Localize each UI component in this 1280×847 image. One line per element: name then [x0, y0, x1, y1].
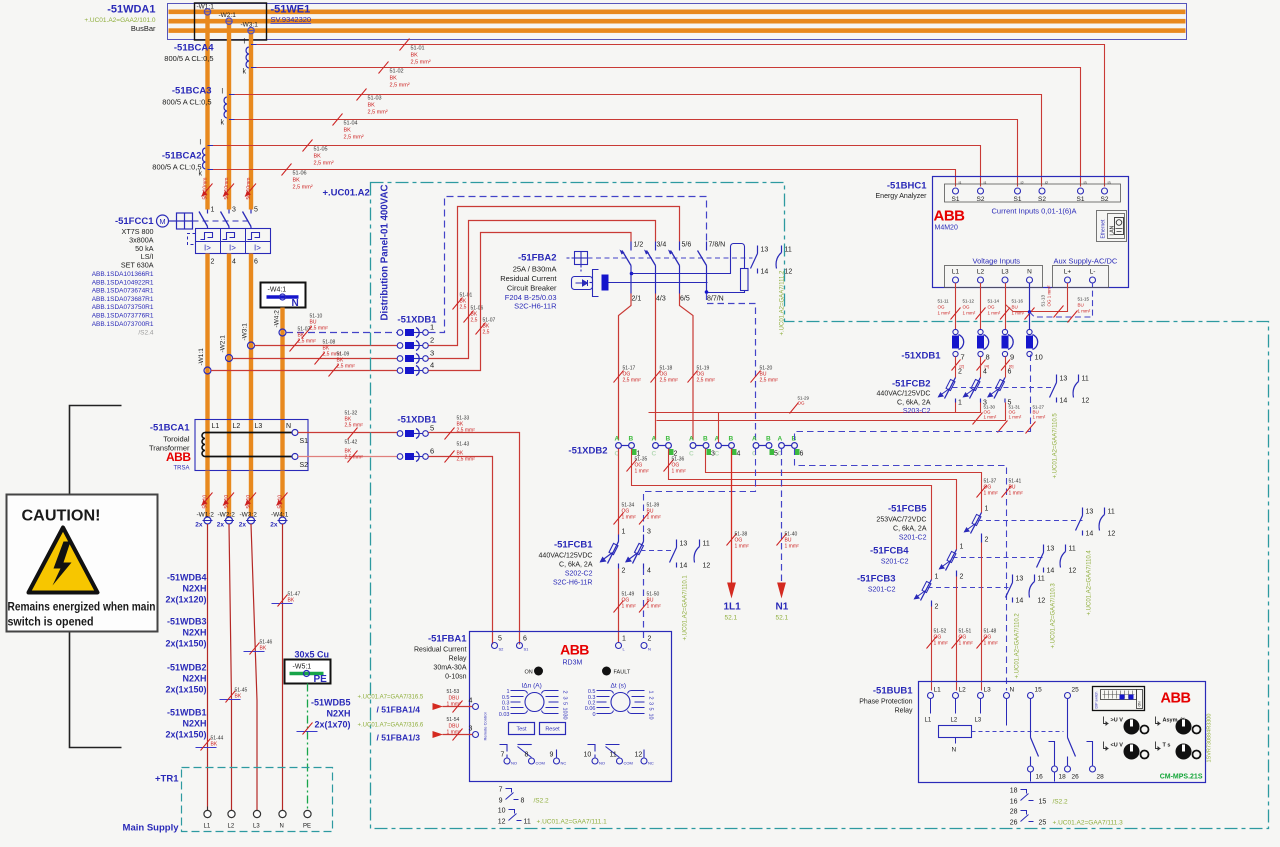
svg-text:2: 2: [958, 369, 962, 376]
aux contact FCB5 13-14: [1076, 508, 1094, 538]
svg-text:14: 14: [1047, 568, 1055, 575]
wire 51-27 neutral dashed XDB1-10 to XDB2-6B: [795, 355, 1046, 443]
svg-text:I2: I2: [1045, 181, 1048, 185]
breaker -51FCB3 pole: [914, 573, 939, 611]
svg-text:S201-C2: S201-C2: [899, 535, 927, 542]
cable label -51WDB4: [165, 573, 206, 605]
svg-text:12: 12: [498, 819, 506, 826]
BUB1 order number vertical: [1207, 714, 1213, 763]
svg-text:-51FCB1: -51FCB1: [554, 540, 593, 551]
toroidal transformer -51BCA1 body: [195, 420, 308, 471]
caution warning triangle: [29, 528, 98, 593]
CT -51BCA4: [164, 39, 256, 76]
svg-text:S202-C2: S202-C2: [565, 571, 593, 578]
svg-text:BK: BK: [314, 154, 322, 160]
svg-text:CM-MPS.21S: CM-MPS.21S: [1160, 774, 1203, 781]
svg-text:18: 18: [1059, 774, 1067, 781]
svg-text:7: 7: [501, 752, 505, 759]
orange stubs below transformer: [205, 471, 284, 517]
svg-text:Relay: Relay: [895, 708, 913, 715]
cable -51WDB4 feeder N: [272, 524, 301, 811]
svg-text:Remote Control: Remote Control: [483, 712, 488, 740]
svg-text:BK: BK: [293, 178, 301, 184]
svg-text:Main Supply: Main Supply: [123, 823, 180, 834]
breaker -51FCB2 linkage dashed: [953, 387, 1053, 389]
svg-text:I>: I>: [254, 244, 261, 253]
phase relay -51BUB1 body: [919, 682, 1206, 783]
svg-text:1 mm²: 1 mm²: [938, 311, 951, 316]
svg-text:TRSA: TRSA: [173, 466, 189, 472]
rccb -51FBA2 pole 1-2: [620, 242, 644, 303]
tap -W2:1 on L2: [219, 12, 237, 24]
orange riser W3 from busbar: [249, 31, 253, 210]
interruption arrow 51FBA1/4: [358, 689, 473, 715]
svg-text:1 mm²: 1 mm²: [635, 469, 650, 475]
RD3M dial IDn: [499, 683, 568, 720]
svg-text:9: 9: [1010, 353, 1014, 362]
svg-text:8: 8: [525, 752, 529, 759]
svg-text:BusBar: BusBar: [131, 24, 156, 33]
svg-text:2,5 mm²: 2,5 mm²: [457, 457, 476, 463]
rccb -51FBA2 residual sensor: [572, 270, 708, 297]
svg-text:k: k: [221, 120, 225, 127]
svg-text:800/5 A CL:0,5: 800/5 A CL:0,5: [164, 54, 213, 63]
tap -W3:1 lower: [242, 323, 255, 349]
svg-text:L2: L2: [977, 269, 985, 276]
svg-text:+.UC01.A2=GAA7/110.5: +.UC01.A2=GAA7/110.5: [1053, 413, 1059, 479]
svg-text:Δt (s): Δt (s): [611, 683, 627, 690]
svg-text:800/5 A CL:0,5: 800/5 A CL:0,5: [162, 98, 211, 107]
svg-text:51-53: 51-53: [447, 689, 460, 695]
RD3M FAULT led: [602, 667, 631, 676]
main supply terminal L3: [253, 810, 261, 829]
relay -51FBA1 RD3M body: [470, 632, 672, 782]
svg-text:1: 1: [622, 529, 626, 536]
svg-text:ABB: ABB: [560, 642, 589, 658]
svg-text:50x10: 50x10: [203, 495, 209, 509]
svg-text:SV.9342320: SV.9342320: [271, 15, 312, 24]
svg-text:A: A: [652, 436, 657, 443]
svg-text:I1: I1: [984, 181, 987, 185]
svg-text:L3: L3: [255, 423, 263, 430]
svg-text:3: 3: [469, 726, 473, 733]
wire 51-03 CT BCA3 l: [235, 89, 1042, 187]
aux contact FCB4 11-12: [1060, 545, 1076, 575]
wire 51-09 to XDB1-4: [211, 352, 397, 377]
svg-text:C, 6kA, 2A: C, 6kA, 2A: [897, 400, 931, 407]
wire 51-31 FCB2-3 feed: [657, 403, 1022, 433]
breaker -51FCB1 pole 3-4: [625, 529, 651, 575]
svg-text:+TR1: +TR1: [155, 774, 179, 785]
svg-text:51-05: 51-05: [314, 147, 328, 153]
analyzer aux supply: [1053, 257, 1118, 288]
breaker -51FCB1 labels: [539, 540, 594, 587]
svg-text:COM: COM: [624, 761, 633, 766]
caution box: [7, 495, 158, 632]
svg-text:2: 2: [430, 336, 434, 345]
busbar phase L2: [169, 19, 1186, 24]
svg-text:2,5 mm²: 2,5 mm²: [344, 135, 364, 141]
wire 51-18 FBA2 to XDB2 2: [651, 294, 679, 441]
svg-text:PE: PE: [314, 674, 328, 685]
svg-text:2,5 mm²: 2,5 mm²: [310, 326, 329, 332]
svg-text:2,5 mm²: 2,5 mm²: [660, 378, 679, 384]
svg-text:-51XDB1: -51XDB1: [901, 351, 941, 362]
riser marks 50x10 below transformer: [202, 493, 288, 509]
terminal XDB2:4: [715, 436, 741, 458]
svg-text:7: 7: [499, 787, 503, 794]
svg-text:5: 5: [254, 207, 258, 214]
svg-text:11: 11: [1038, 576, 1045, 583]
wire 51-33 XDB1-5 down to RD3M 6: [429, 416, 520, 645]
svg-text:25: 25: [1039, 820, 1047, 827]
svg-text:k: k: [243, 69, 247, 76]
wire XDB1-2 up to FBA2 pole 5-6: [429, 207, 680, 346]
breaker -51FCB3 labels: [857, 574, 896, 594]
svg-text:/ 51FBA1/3: / 51FBA1/3: [377, 733, 421, 743]
wire 51-42 S2 to XDB1-6: [298, 440, 397, 463]
aux contact FCB3 13-14: [1006, 575, 1024, 605]
fuse terminal XDB1:7: [952, 329, 965, 370]
svg-text:L2: L2: [228, 824, 235, 830]
aux contact FCB2 13-14: [1050, 375, 1068, 405]
wire 51-06 CT BCA2 k: [213, 164, 956, 191]
wire 51-39 neutral to FCB1-3 mark: [639, 503, 661, 525]
cable -51WDB2 feeder L2: [220, 524, 248, 811]
green ref 110.2 vertical: [1015, 613, 1021, 679]
wire 51-10 N dashed to XDB1-1: [286, 314, 397, 339]
terminal strip -51XDB2 label: [568, 446, 607, 457]
svg-text:51-11: 51-11: [938, 299, 950, 304]
svg-text:ABB.1SDA073700R1: ABB.1SDA073700R1: [92, 321, 154, 328]
svg-text:B: B: [766, 436, 771, 443]
svg-text:+.UC01.A2=GAA7/111.3: +.UC01.A2=GAA7/111.3: [1053, 820, 1124, 827]
BUB1 output contact 15-16-18: [1031, 699, 1055, 766]
svg-text:N: N: [292, 298, 299, 309]
breaker -51FCB2 pole 2: [963, 357, 988, 407]
BUB1 dial <U: [1104, 742, 1149, 760]
svg-text:12: 12: [1108, 531, 1116, 538]
label +.UC01.A2=GAA2/101.0: [84, 17, 156, 24]
potential arrow 1L1: [724, 583, 742, 622]
svg-text:C, 6kA, 2A: C, 6kA, 2A: [893, 526, 927, 533]
svg-text:-51WDB2: -51WDB2: [167, 663, 207, 673]
svg-text:2,5 mm²: 2,5 mm²: [411, 60, 431, 66]
svg-text:FAULT: FAULT: [614, 670, 631, 676]
svg-text:ABB.1SDA073750R1: ABB.1SDA073750R1: [92, 304, 154, 311]
svg-text:4/3: 4/3: [656, 296, 666, 303]
wire 51-32 S1 to XDB1-5: [298, 411, 397, 440]
svg-text:ABB.1SDA073776R1: ABB.1SDA073776R1: [92, 313, 154, 320]
wire 51-04 CT BCA3 k: [235, 114, 1018, 187]
svg-text:51-04: 51-04: [344, 121, 358, 127]
PE conductor green: [307, 684, 309, 811]
RD3M ON led: [525, 667, 544, 676]
svg-text:+.UC01.A2=GAA7/111.1: +.UC01.A2=GAA7/111.1: [537, 819, 608, 826]
wire 51-49 FCB1-2 to RD3M 1: [614, 569, 637, 643]
svg-text:+.UC01.A2=GAA7/110.3: +.UC01.A2=GAA7/110.3: [1051, 583, 1057, 649]
svg-text:51-01: 51-01: [411, 46, 425, 52]
svg-text:L1: L1: [934, 687, 942, 694]
cable label -51WDB3: [165, 617, 206, 649]
svg-text:28: 28: [1010, 809, 1018, 816]
svg-text:7/8/N: 7/8/N: [709, 242, 726, 249]
svg-text:1 mm²: 1 mm²: [447, 702, 462, 708]
svg-text:-51BCA1: -51BCA1: [150, 423, 190, 434]
orange riser W3 lower: [249, 254, 253, 421]
svg-text:L2: L2: [233, 423, 241, 430]
svg-text:S201-C2: S201-C2: [868, 587, 896, 594]
svg-text:1: 1: [648, 691, 654, 694]
svg-text:11: 11: [785, 247, 792, 254]
svg-text:10: 10: [1035, 353, 1043, 362]
label -51WE1: [271, 4, 311, 16]
svg-text:+.UC01.A2=GAA2/101.0: +.UC01.A2=GAA2/101.0: [84, 17, 156, 24]
svg-text:1 mm²: 1 mm²: [1078, 309, 1091, 314]
terminal XDB1:6: [397, 447, 434, 462]
svg-text:4: 4: [232, 259, 236, 266]
svg-text:3: 3: [983, 400, 987, 407]
svg-text:16: 16: [1036, 774, 1044, 781]
svg-text:Circuit Breaker: Circuit Breaker: [507, 284, 557, 293]
wire 51-51 FCB4 to BUB1 L2: [952, 577, 974, 691]
svg-text:S1: S1: [1014, 196, 1022, 203]
BUB1 terminals top: [928, 687, 1080, 699]
svg-text:BK: BK: [344, 128, 352, 134]
svg-text:N2XH: N2XH: [326, 709, 350, 719]
svg-text:-51FCB5: -51FCB5: [888, 504, 927, 515]
svg-text:8: 8: [986, 353, 990, 362]
svg-text:2x: 2x: [195, 522, 203, 529]
svg-text:S2: S2: [1101, 196, 1109, 203]
wire XDB1-3 up to FBA2 pole 3-4: [429, 221, 656, 359]
svg-text:12: 12: [1082, 398, 1090, 405]
svg-text:2,5 mm²: 2,5 mm²: [623, 378, 642, 384]
fuse terminal XDB1:8: [977, 329, 990, 370]
svg-text:+.UC01.A2=GAA7/110.1: +.UC01.A2=GAA7/110.1: [683, 575, 689, 641]
wire 51-41 neutral dashed XDB2-6B to BUB1 N: [795, 449, 1024, 691]
svg-text:B: B: [703, 436, 708, 443]
svg-text:0.03: 0.03: [499, 712, 510, 718]
svg-text:51-03: 51-03: [368, 96, 382, 102]
svg-text:N2XH: N2XH: [182, 719, 206, 729]
breaker -51FCC1 linkage dashed: [193, 220, 253, 222]
wire 51-07 to XDB1-2: [255, 327, 398, 352]
svg-text:2,5 mm²: 2,5 mm²: [337, 364, 356, 370]
energy analyzer -51BHC1 labels: [876, 181, 928, 201]
svg-text:12: 12: [703, 563, 711, 570]
BUB1 output contact 25-26-28: [1068, 699, 1093, 766]
svg-text:12: 12: [1069, 568, 1077, 575]
svg-text:8: 8: [521, 798, 525, 805]
svg-text:-W4:2: -W4:2: [274, 310, 281, 328]
terminal XDB2:5: [752, 436, 778, 458]
svg-text:S203-C2: S203-C2: [903, 408, 931, 415]
relay -51FBA1 labels: [414, 634, 467, 681]
svg-text:5: 5: [648, 708, 654, 711]
wire 51-43 XDB1-6 down to RD3M 5: [429, 442, 493, 645]
svg-text:30x5 Cu: 30x5 Cu: [295, 650, 330, 660]
svg-text:NC: NC: [561, 761, 567, 766]
svg-text:30mA-30A: 30mA-30A: [433, 665, 466, 672]
orange riser W2 from busbar: [227, 21, 231, 210]
svg-text:12: 12: [1038, 598, 1046, 605]
wire 51-20 FBA2 N to XDB2 5: [707, 294, 779, 441]
svg-text:L3: L3: [984, 687, 992, 694]
BUB1 terminals bottom: [1028, 766, 1105, 782]
svg-text:0-10sn: 0-10sn: [445, 674, 467, 681]
wire N dashed XDB1-1 up to FBA2 pole4: [429, 197, 707, 333]
aux contact FCB4 13-14: [1037, 545, 1055, 575]
svg-text:12: 12: [785, 269, 793, 276]
svg-text:2: 2: [211, 259, 215, 266]
green ref 111.2 vertical: [780, 270, 786, 335]
BUB1 type label: [1160, 774, 1203, 781]
FCB4 linkage dashed: [953, 557, 1044, 559]
wire 51-38 XDB2-4B to 1L1: [727, 449, 750, 584]
svg-text:50x10mm: 50x10mm: [224, 178, 230, 200]
aux contact FCB3 11-12: [1029, 575, 1045, 605]
svg-text:1: 1: [622, 636, 626, 643]
rccb -51FBA2 neutral current path: [632, 244, 749, 294]
svg-text:ON: ON: [1138, 701, 1142, 707]
svg-text:51-06: 51-06: [293, 171, 307, 177]
terminal strip -51XDB1 5-6 label: [397, 415, 437, 426]
svg-text:+.UC01.A2=GAA7/110.2: +.UC01.A2=GAA7/110.2: [1015, 613, 1021, 679]
riser cable marks 50x10: [202, 178, 257, 200]
svg-text:10: 10: [584, 752, 592, 759]
svg-text:2,5 mm²: 2,5 mm²: [314, 161, 334, 167]
svg-text:2: 2: [935, 604, 939, 611]
svg-text:/S2.4: /S2.4: [138, 330, 154, 337]
svg-text:800/5 A CL:0,5: 800/5 A CL:0,5: [152, 163, 201, 172]
svg-text:1 mm²: 1 mm²: [647, 604, 662, 610]
svg-text:50x10mm: 50x10mm: [246, 178, 252, 200]
svg-text:11: 11: [1108, 509, 1115, 516]
svg-text:Residual Current: Residual Current: [414, 647, 467, 654]
svg-text:-51WDB3: -51WDB3: [167, 617, 207, 627]
svg-text:51-02: 51-02: [390, 69, 404, 75]
svg-text:5/6: 5/6: [682, 242, 692, 249]
orange riser W2 lower: [227, 254, 231, 421]
svg-text:1 mm²: 1 mm²: [988, 311, 1001, 316]
svg-text:440VAC/125VDC: 440VAC/125VDC: [877, 391, 931, 398]
svg-text:C: C: [715, 451, 720, 458]
svg-text:14: 14: [1086, 531, 1094, 538]
svg-text:Relay: Relay: [449, 656, 467, 663]
RD3M relay contact group 1: [500, 744, 557, 758]
breaker -51FCC1 motor operator: [157, 213, 193, 229]
analyzer current terminals S1 S2 x3: [952, 181, 1111, 203]
svg-text:B: B: [729, 436, 734, 443]
svg-text:NO: NO: [511, 761, 517, 766]
svg-text:2,5 mm²: 2,5 mm²: [760, 378, 779, 384]
tap -W1:1 on L1: [197, 4, 215, 16]
svg-text:1 mm²: 1 mm²: [785, 544, 800, 550]
svg-text:2,5: 2,5: [483, 330, 490, 336]
svg-text:11: 11: [1069, 546, 1076, 553]
svg-text:S1: S1: [524, 647, 530, 652]
svg-text:25: 25: [1072, 687, 1080, 694]
svg-text:L1: L1: [925, 718, 932, 724]
breaker -51FCB5 pole: [964, 506, 989, 544]
svg-text:NC: NC: [648, 761, 654, 766]
orange riser W1 lower: [205, 254, 209, 421]
svg-text:N: N: [952, 747, 957, 754]
terminal XDB2:3: [689, 436, 715, 458]
svg-text:Ethernet: Ethernet: [1101, 219, 1107, 239]
label +.UC01.A2: [323, 188, 370, 199]
svg-text:N: N: [1027, 269, 1032, 276]
svg-text:I>: I>: [229, 244, 236, 253]
svg-text:2/1: 2/1: [632, 296, 642, 303]
svg-text:M4M20: M4M20: [935, 225, 958, 232]
svg-text:1 mm²: 1 mm²: [1033, 415, 1046, 420]
svg-text:Voltage Inputs: Voltage Inputs: [973, 257, 1021, 266]
svg-text:BK: BK: [368, 103, 376, 109]
RD3M relay contact group 2: [588, 745, 645, 758]
svg-text:-51WE1: -51WE1: [271, 4, 311, 16]
label -51WDA1: [107, 4, 155, 16]
svg-text:2x: 2x: [217, 522, 225, 529]
PE busbar label 30x5 Cu: [295, 650, 330, 660]
svg-text:I1: I1: [959, 181, 962, 185]
svg-text:2x: 2x: [239, 522, 247, 529]
main supply terminal N: [279, 810, 286, 829]
svg-text:5: 5: [1008, 400, 1012, 407]
svg-text:9: 9: [550, 752, 554, 759]
svg-text:1/2: 1/2: [634, 242, 644, 249]
svg-text:1 mm²: 1 mm²: [959, 641, 974, 647]
svg-text:OG: OG: [798, 401, 806, 406]
svg-text:2,5 mm²: 2,5 mm²: [298, 339, 317, 345]
RD3M terminal 2: [641, 636, 652, 652]
svg-text:0: 0: [592, 712, 595, 718]
RD3M terminal 5: [492, 636, 505, 652]
svg-text:2x: 2x: [270, 522, 278, 529]
svg-text:1 mm²: 1 mm²: [622, 604, 637, 610]
wire 51-48 FCB5 to BUB1 L3: [977, 543, 999, 691]
svg-text:2: 2: [985, 537, 989, 544]
green ref 110.3 vertical: [1051, 583, 1057, 649]
black pointer bracket: [70, 406, 122, 748]
RD3M terminal 6: [517, 636, 530, 652]
svg-text:52.1: 52.1: [725, 615, 738, 622]
terminal XDB2:1: [615, 436, 641, 458]
PE tap box -W5:1: [285, 660, 331, 686]
svg-text:OG: OG: [988, 305, 996, 310]
svg-text:6/5: 6/5: [680, 296, 690, 303]
wire 51-19 FBA2 to XDB2 3: [680, 294, 716, 441]
svg-text:-51WDB1: -51WDB1: [167, 708, 207, 718]
cable -51WDB3 feeder L3: [244, 524, 273, 811]
svg-text:>U V: >U V: [1111, 718, 1124, 724]
svg-text:L2: L2: [959, 687, 967, 694]
main supply terminal L1: [204, 807, 212, 830]
svg-text:4: 4: [647, 568, 651, 575]
main supply terminal L2: [228, 810, 236, 829]
svg-text:-W3:1: -W3:1: [242, 323, 249, 341]
breaker -51FCC1 trip unit box: [188, 229, 271, 254]
svg-text:-51FCB4: -51FCB4: [870, 546, 909, 557]
breaker -51FCB5 labels: [876, 504, 927, 542]
RD3M dial Dt: [585, 683, 654, 720]
terminal XDB2:6: [778, 436, 804, 458]
wire 51-14 analyzer L3: [988, 283, 1011, 329]
svg-text:4: 4: [737, 451, 741, 458]
wire 51-12 analyzer L2: [963, 283, 986, 329]
svg-text:-51WDA1: -51WDA1: [107, 4, 155, 16]
